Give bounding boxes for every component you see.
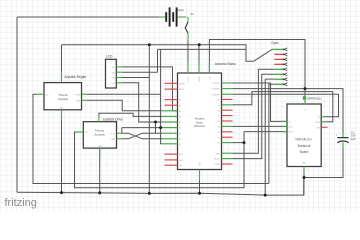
svg-text:Gyro: Gyro xyxy=(272,41,279,45)
svg-text:Joystick Drive: Joystick Drive xyxy=(103,118,123,122)
svg-text:D6: D6 xyxy=(218,121,220,123)
svg-text:D5: D5 xyxy=(218,127,220,129)
svg-text:A6: A6 xyxy=(179,132,181,135)
svg-text:GND: GND xyxy=(60,108,65,110)
svg-text:GND: GND xyxy=(302,163,307,165)
svg-text:D11/MOSI: D11/MOSI xyxy=(212,94,221,96)
svg-text:D0/RX: D0/RX xyxy=(215,164,221,166)
svg-text:A3: A3 xyxy=(179,116,181,119)
svg-text:GND: GND xyxy=(179,160,184,162)
svg-text:Joystick: Joystick xyxy=(57,97,68,101)
svg-text:A5: A5 xyxy=(179,127,181,130)
svg-text:A0: A0 xyxy=(179,99,181,102)
svg-text:D0/RX: D0/RX xyxy=(199,76,201,82)
svg-text:D2: D2 xyxy=(218,143,220,145)
svg-text:A4: A4 xyxy=(179,121,181,124)
svg-text:LCD: LCD xyxy=(106,55,113,59)
svg-text:fritzing: fritzing xyxy=(5,197,37,209)
svg-text:GND: GND xyxy=(98,146,103,148)
svg-text:D8: D8 xyxy=(218,110,220,112)
svg-text:Board: Board xyxy=(300,150,309,154)
svg-text:A2: A2 xyxy=(179,110,181,113)
svg-text:D10: D10 xyxy=(217,100,220,102)
svg-text:GND: GND xyxy=(111,78,116,80)
svg-text:RESET: RESET xyxy=(214,159,221,161)
svg-text:Vcc: Vcc xyxy=(304,110,307,112)
svg-text:D9: D9 xyxy=(218,105,220,107)
svg-text:A1: A1 xyxy=(179,104,181,107)
svg-text:D3: D3 xyxy=(218,137,220,139)
svg-text:A7: A7 xyxy=(179,138,181,141)
svg-text:SCL: SCL xyxy=(112,67,116,69)
svg-text:D4: D4 xyxy=(218,132,220,134)
svg-text:GND: GND xyxy=(216,153,221,155)
svg-text:Arduino Nano: Arduino Nano xyxy=(215,62,236,66)
svg-text:GND: GND xyxy=(200,162,202,167)
svg-text:D13/SCK: D13/SCK xyxy=(213,83,221,85)
svg-text:1µF: 1µF xyxy=(351,137,356,141)
svg-text:D1/TX: D1/TX xyxy=(188,76,190,82)
svg-text:D7: D7 xyxy=(218,116,220,118)
svg-text:Joystick Regler: Joystick Regler xyxy=(64,75,87,79)
svg-text:MISO: MISO xyxy=(289,132,294,134)
svg-text:RESET: RESET xyxy=(179,83,186,85)
svg-text:Joystick: Joystick xyxy=(94,133,105,137)
svg-text:NRF24L01+: NRF24L01+ xyxy=(295,138,312,142)
svg-text:4xAA: 4xAA xyxy=(177,8,184,12)
svg-text:(Rev3.0): (Rev3.0) xyxy=(194,124,205,128)
svg-text:S1: S1 xyxy=(191,12,195,16)
svg-text:Breakout: Breakout xyxy=(298,144,311,148)
svg-text:NRF24L01: NRF24L01 xyxy=(307,97,322,101)
svg-text:D12/MISO: D12/MISO xyxy=(212,89,221,91)
svg-text:MOSI: MOSI xyxy=(315,122,320,124)
